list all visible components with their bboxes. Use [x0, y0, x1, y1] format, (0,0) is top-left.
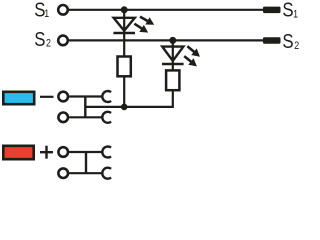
- LED D1 cathode bar: [113, 32, 135, 34]
- junction node common rail: [121, 104, 128, 111]
- svg-text:S1: S1: [282, 0, 298, 21]
- plus contact circle lower: [58, 168, 68, 178]
- plus contact circle upper: [58, 147, 68, 157]
- minus sign: [40, 96, 54, 98]
- LED D2 cathode bar: [162, 63, 184, 65]
- LED D1 light arrow upper: [138, 13, 156, 28]
- wire minus upper contact: [69, 95, 102, 97]
- plus plug contact upper: [102, 147, 111, 158]
- terminal block S1 right: [263, 7, 281, 14]
- terminal block S2 right: [263, 37, 281, 44]
- wire S2 junction down to LED D2: [172, 40, 174, 64]
- wire S2 horizontal: [69, 39, 263, 41]
- minus plug contact upper: [102, 91, 111, 102]
- plus plug contact lower: [102, 168, 111, 179]
- wire resistor R1 to common node: [123, 76, 125, 107]
- minus plug contact lower: [102, 112, 111, 123]
- label S2 (right): [282, 29, 299, 52]
- plus terminal color code (red): [3, 146, 33, 159]
- wire LED D2 to resistor R2: [172, 64, 174, 70]
- terminal circle S2 left: [58, 36, 68, 46]
- common rail wire to minus group: [85, 106, 124, 108]
- wire plus upper contact: [69, 151, 102, 153]
- svg-text:S2: S2: [34, 28, 51, 51]
- junction node on S2: [169, 37, 176, 44]
- plus sign: [40, 146, 53, 159]
- wire S1 horizontal: [69, 9, 263, 11]
- wire S1 junction down to LED D1: [123, 10, 125, 33]
- minus terminal color code (blue): [3, 92, 34, 104]
- svg-text:S1: S1: [34, 0, 49, 21]
- junction node on S1: [121, 6, 128, 13]
- resistor R2: [166, 70, 179, 90]
- LED D1 (anode triangle): [114, 18, 135, 31]
- wire resistor R2 down to common rail: [124, 90, 173, 107]
- terminal circle S1 left: [58, 5, 68, 15]
- LED D2 light arrow upper: [185, 43, 203, 60]
- LED D1 light arrow lower: [132, 20, 150, 36]
- wire LED D1 to resistor R1: [123, 33, 125, 56]
- wire plus lower contact: [69, 172, 102, 174]
- label S1 (left): [34, 0, 49, 21]
- label S2 (left): [34, 28, 51, 51]
- svg-text:S2: S2: [282, 29, 299, 52]
- wire bridging minus contacts: [84, 97, 86, 118]
- minus contact circle upper: [58, 92, 68, 102]
- minus contact circle lower: [58, 113, 68, 123]
- label S1 (right): [282, 0, 298, 21]
- wire minus lower contact: [69, 116, 102, 118]
- resistor R1: [118, 57, 131, 77]
- LED D2 light arrow lower: [182, 53, 200, 70]
- wire bridging plus contacts: [85, 152, 87, 173]
- LED D2 (anode triangle): [162, 47, 183, 61]
